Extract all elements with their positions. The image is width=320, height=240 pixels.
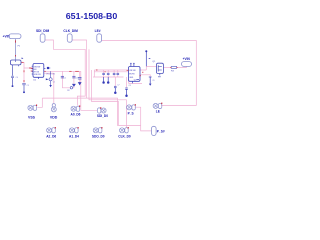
- svg-text:P_S#: P_S#: [157, 130, 165, 134]
- svg-text:651-1508-B0: 651-1508-B0: [66, 12, 118, 21]
- svg-text:C2: C2: [64, 78, 66, 80]
- svg-text:CLK_DIM: CLK_DIM: [63, 29, 78, 33]
- svg-text:C4: C4: [16, 77, 18, 79]
- svg-text:VSS: VSS: [28, 115, 36, 119]
- svg-text:A0_D6: A0_D6: [71, 112, 81, 116]
- svg-text:LE: LE: [156, 110, 160, 114]
- svg-text:GND FB: GND FB: [34, 74, 42, 76]
- svg-text:VOUT_5V: VOUT_5V: [46, 74, 55, 76]
- svg-text:SDO_D0: SDO_D0: [92, 135, 105, 139]
- svg-text:LE#: LE#: [95, 29, 101, 33]
- svg-text:GND: GND: [129, 77, 134, 79]
- svg-text:C1: C1: [53, 81, 55, 83]
- svg-text:P_S: P_S: [128, 111, 134, 115]
- svg-text:VIN SW: VIN SW: [129, 70, 136, 72]
- svg-text:C5: C5: [27, 85, 29, 87]
- svg-text:C8: C8: [128, 85, 130, 87]
- svg-text:A2_D6: A2_D6: [46, 135, 56, 139]
- svg-text:EN FB: EN FB: [129, 74, 135, 76]
- svg-text:+VIN: +VIN: [183, 57, 191, 61]
- svg-text:C7: C7: [117, 85, 119, 87]
- svg-text:R2: R2: [67, 90, 69, 92]
- svg-text:C3: C3: [75, 78, 77, 80]
- svg-text:VDD: VDD: [50, 115, 58, 119]
- svg-text:SDI_D0: SDI_D0: [97, 114, 108, 118]
- svg-text:CLK_D0: CLK_D0: [118, 135, 131, 139]
- svg-text:A1_D4: A1_D4: [69, 135, 79, 139]
- svg-text:C9: C9: [152, 80, 154, 82]
- svg-text:SDI_DIM: SDI_DIM: [36, 29, 49, 33]
